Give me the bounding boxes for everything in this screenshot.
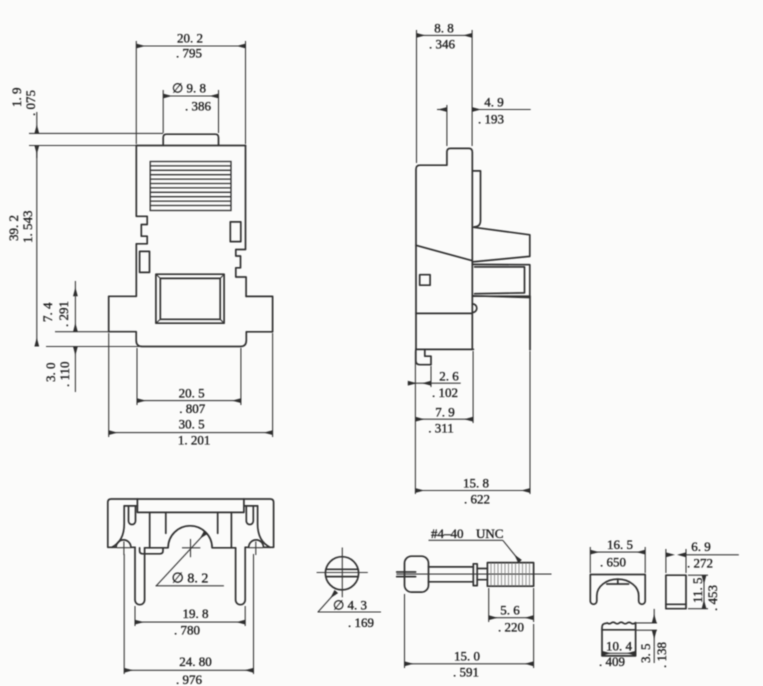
svg-text:20. 2: 20. 2 — [177, 31, 203, 46]
left finger fillet — [112, 506, 124, 547]
left vertical dim line 1.9 and 39.2 — [36, 112, 38, 347]
svg-text:. 110: . 110 — [57, 361, 72, 387]
left extension line bump top — [29, 132, 163, 134]
svg-text:∅ 9. 8: ∅ 9. 8 — [172, 81, 206, 96]
svg-text:6. 9: 6. 9 — [691, 539, 711, 554]
svg-text:1. 9: 1. 9 — [9, 88, 24, 108]
svg-text:7. 9: 7. 9 — [435, 404, 455, 419]
svg-text:15. 8: 15. 8 — [463, 476, 489, 491]
body right profile — [236, 146, 246, 297]
dim diameter 9.8/.386 — [163, 90, 218, 133]
svg-text:. 622: . 622 — [464, 492, 490, 507]
dim 16.5/.650 — [590, 547, 645, 573]
horizontal centerline — [317, 572, 368, 574]
rib panel frame — [150, 162, 231, 211]
insert inner line — [602, 629, 636, 631]
svg-text:UNC: UNC — [476, 526, 503, 541]
SCREW HEAD CIRCLE VIEW — [317, 548, 381, 631]
SCREW SIDE VIEW — [396, 526, 551, 680]
leader arrow 4.3 — [318, 592, 382, 613]
dim 30.5/1.201 — [109, 333, 273, 437]
svg-text:. 976: . 976 — [176, 672, 203, 686]
small tab under left section — [140, 548, 163, 554]
clip front outline — [590, 575, 645, 605]
dim 15.0/.591 — [405, 594, 534, 668]
arch center cross — [182, 539, 200, 557]
body left profile — [136, 146, 147, 297]
thread hatch — [491, 563, 530, 586]
inner verticals left — [150, 512, 166, 547]
FRONT VIEW — [6, 31, 273, 448]
svg-text:. 780: . 780 — [174, 623, 200, 638]
bottom hook — [416, 349, 431, 364]
svg-text:7. 4: 7. 4 — [40, 302, 55, 322]
left wing underbar — [124, 505, 137, 507]
dim 10.4/.409 — [602, 652, 636, 654]
svg-text:30. 5: 30. 5 — [179, 417, 205, 432]
svg-text:. 795: . 795 — [176, 46, 202, 61]
slab outline with top bump — [416, 148, 473, 349]
dim 19.8/.780 — [135, 606, 245, 626]
right slot U — [246, 506, 253, 525]
dim 3.5/.138 — [636, 609, 657, 663]
lower wedge outer — [473, 264, 530, 297]
right pin cross — [249, 542, 264, 556]
rib lines — [150, 166, 231, 206]
svg-text:20. 5: 20. 5 — [179, 386, 205, 401]
svg-text:. 075: . 075 — [23, 90, 38, 116]
right wing underbar — [244, 505, 257, 507]
extension flange bottom left — [55, 331, 136, 333]
flange top and right edge — [473, 296, 530, 350]
clip side bottom double line — [666, 603, 686, 605]
svg-text:8. 8: 8. 8 — [434, 21, 454, 36]
svg-text:4. 9: 4. 9 — [484, 95, 504, 110]
svg-text:. 272: . 272 — [687, 556, 713, 571]
screw head — [405, 556, 429, 592]
svg-text:. 193: . 193 — [478, 112, 504, 127]
svg-text:. 409: . 409 — [599, 654, 625, 669]
upper wedge arm — [473, 227, 530, 262]
left pin cross — [117, 542, 132, 556]
slant line across slab — [416, 245, 472, 260]
bottom line with arch — [145, 526, 236, 548]
centerline — [396, 573, 551, 575]
svg-text:. 220: . 220 — [498, 620, 524, 635]
dim 5.6/.220 — [489, 588, 534, 622]
clamp center block — [137, 499, 244, 512]
left latch window — [140, 251, 150, 272]
svg-text:. 346: . 346 — [429, 37, 456, 52]
svg-text:2. 6: 2. 6 — [439, 368, 459, 383]
right strip latch — [472, 171, 480, 227]
svg-text:3. 5: 3. 5 — [638, 644, 653, 664]
toothed insert outline — [602, 622, 636, 656]
flange and mouth outline — [109, 296, 273, 346]
clamp outer top bar and wings — [108, 499, 274, 547]
clip grip chord — [607, 579, 629, 584]
svg-text:16. 5: 16. 5 — [607, 537, 633, 552]
svg-text:. 102: . 102 — [432, 385, 458, 400]
threaded section — [487, 563, 533, 587]
dim 2.6/.102 — [408, 366, 461, 387]
svg-text:1. 543: 1. 543 — [20, 211, 35, 244]
collar — [473, 564, 477, 586]
right finger fillet — [258, 506, 270, 547]
svg-text:. 807: . 807 — [179, 401, 206, 416]
dim 20.2/.795 — [136, 41, 245, 144]
svg-text:. 591: . 591 — [453, 665, 479, 680]
svg-text:. 453: . 453 — [705, 585, 720, 611]
dim 7.9/.311 — [415, 351, 473, 423]
neck — [477, 568, 487, 570]
svg-text:. 138: . 138 — [654, 642, 669, 668]
head slot — [397, 571, 416, 573]
dim 24.80/.976 — [124, 554, 253, 674]
svg-text:#4–40: #4–40 — [431, 526, 464, 541]
vertical centerline — [341, 548, 343, 598]
svg-text:39. 2: 39. 2 — [6, 215, 21, 241]
left extension line cap top — [29, 145, 136, 147]
svg-text:. 386: . 386 — [185, 99, 212, 114]
svg-text:11. 5: 11. 5 — [690, 577, 705, 603]
line across slab at flange — [416, 312, 472, 314]
window inner rect — [160, 278, 220, 319]
window outer rect — [156, 274, 224, 323]
svg-text:3. 0: 3. 0 — [43, 363, 58, 383]
CLIP VIEWS — [590, 537, 739, 669]
side latch square — [420, 275, 430, 286]
semicircle notch — [473, 304, 477, 313]
CLAMP VIEW — [108, 499, 274, 686]
dim 8.8/.346 — [417, 30, 473, 163]
svg-text:∅ 8. 2: ∅ 8. 2 — [172, 572, 209, 587]
inner verticals right — [218, 512, 232, 547]
dim 6.9/.272 — [666, 549, 739, 573]
svg-text:15. 0: 15. 0 — [454, 649, 480, 664]
clip side outline — [666, 575, 686, 609]
left leg — [135, 547, 145, 604]
hood cap top edge — [136, 145, 245, 147]
SIDE VIEW — [408, 21, 531, 507]
dim 4.9/.193 — [437, 105, 531, 146]
svg-text:5. 6: 5. 6 — [500, 602, 520, 617]
svg-text:. 650: . 650 — [600, 555, 626, 570]
svg-text:19. 8: 19. 8 — [183, 606, 209, 621]
dim line 7.4 / 3.0 vertical — [74, 281, 76, 392]
shank — [429, 566, 474, 568]
svg-text:1. 201: 1. 201 — [178, 432, 211, 447]
screw head circle — [325, 557, 358, 590]
cable entry bump — [163, 134, 218, 145]
dim 20.5/.807 — [137, 348, 241, 405]
dim 11.5/.453 — [688, 575, 708, 609]
right leg — [236, 547, 246, 604]
svg-text:10. 4: 10. 4 — [606, 639, 633, 654]
diameter 8.2 leader — [156, 532, 224, 586]
slot chords — [326, 568, 358, 570]
dim 15.8/.622 — [415, 351, 530, 494]
left slot U — [129, 506, 136, 525]
svg-text:. 169: . 169 — [348, 615, 374, 630]
lower wedge inner — [475, 267, 525, 294]
window corner chamfers — [156, 274, 224, 323]
right latch window — [230, 222, 241, 242]
label underline and leader — [429, 540, 521, 561]
svg-text:24. 80: 24. 80 — [179, 654, 212, 669]
svg-text:. 291: . 291 — [56, 301, 71, 327]
svg-text:∅ 4. 3: ∅ 4. 3 — [333, 598, 367, 613]
extension mouth bottom left — [46, 346, 141, 348]
svg-text:. 311: . 311 — [428, 421, 454, 436]
